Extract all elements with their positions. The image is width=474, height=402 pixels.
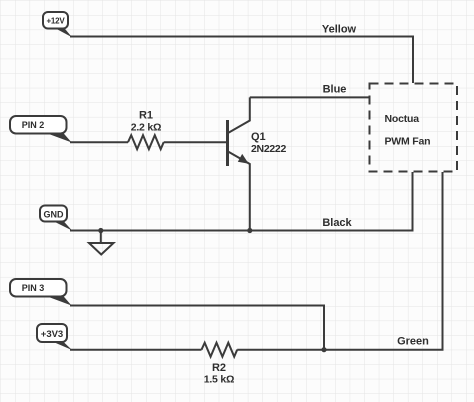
net flag PIN 3 — [10, 279, 72, 306]
resistor R2 — [202, 343, 238, 357]
svg-text:GND: GND — [44, 210, 65, 220]
wire yellow from +12V to fan box top — [70, 37, 413, 84]
net flag GND — [40, 206, 72, 231]
svg-text:R1: R1 — [139, 110, 153, 122]
wire PIN3 down to green net — [70, 306, 324, 350]
transistor Q1 emitter — [228, 152, 250, 231]
svg-text:2N2222: 2N2222 — [251, 143, 286, 155]
svg-text:PWM Fan: PWM Fan — [385, 136, 431, 148]
svg-text:+12V: +12V — [46, 17, 65, 26]
net flag +3V3 — [37, 324, 72, 350]
wire black from GND to fan box bottom — [70, 172, 413, 231]
ground — [89, 231, 114, 255]
svg-text:PIN 2: PIN 2 — [22, 120, 45, 130]
svg-text:2.2 kΩ: 2.2 kΩ — [131, 122, 162, 134]
junction ground tap — [98, 228, 103, 233]
wire green from R2 to fan box bottom — [237, 172, 442, 350]
junction emitter/black — [247, 228, 252, 233]
net flag +12V — [43, 12, 72, 37]
transistor Q1 base bar — [226, 120, 229, 166]
svg-text:Green: Green — [397, 336, 429, 348]
wire +3V3 to R2 — [70, 349, 202, 351]
svg-text:R2: R2 — [212, 362, 226, 374]
wire R1 to Q1 base — [164, 141, 227, 143]
fan box Noctua PWM Fan — [370, 84, 458, 172]
svg-text:Black: Black — [322, 217, 352, 229]
svg-text:Noctua: Noctua — [385, 113, 420, 125]
svg-text:1.5 kΩ: 1.5 kΩ — [204, 374, 235, 386]
svg-text:PIN 3: PIN 3 — [22, 283, 45, 293]
svg-text:Yellow: Yellow — [322, 24, 357, 36]
svg-text:+3V3: +3V3 — [41, 329, 63, 340]
emitter arrowhead — [238, 154, 249, 164]
wire blue from collector to fan box — [250, 96, 370, 98]
svg-text:Q1: Q1 — [251, 131, 266, 143]
wire PIN2 to R1 — [70, 141, 128, 143]
transistor Q1 collector — [228, 97, 250, 133]
svg-text:Blue: Blue — [323, 84, 347, 96]
resistor R1 — [128, 135, 164, 149]
junction PIN3/green — [321, 347, 326, 352]
net flag PIN 2 — [10, 116, 72, 142]
